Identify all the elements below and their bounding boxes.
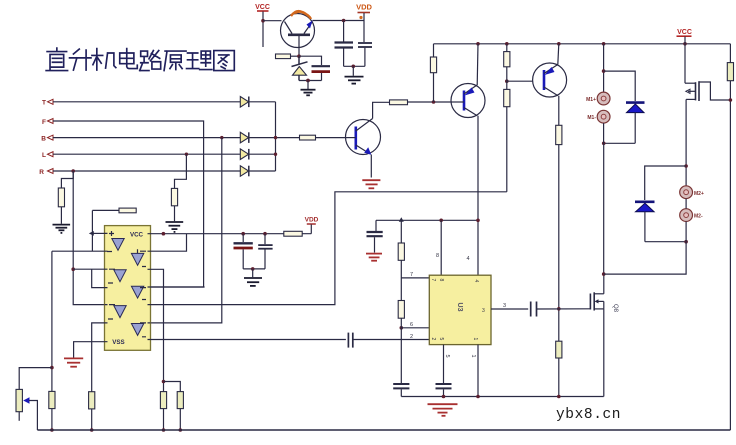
U3 inner pin labels	[430, 279, 485, 341]
wire Q6 gate route	[699, 82, 730, 100]
char 原	[164, 51, 186, 70]
capacitor C (output coupling)	[531, 302, 537, 317]
orange scribble on Q1	[291, 11, 311, 19]
svg-text:6: 6	[410, 322, 413, 328]
diode D6 (M2 flyback)	[635, 202, 655, 242]
ground (VDD caps)	[345, 77, 364, 84]
svg-text:2: 2	[430, 338, 436, 341]
capacitor C (pin5 bypass)	[436, 384, 452, 397]
resistor R (U1 feedback)	[119, 208, 136, 213]
node bus L	[274, 153, 277, 156]
wire zener bottom	[299, 80, 322, 82]
svg-text:3: 3	[503, 303, 506, 309]
transistor Q1 (top regulator)	[281, 14, 315, 57]
wire pin5-pin7 link	[92, 269, 105, 287]
node R pin junction	[71, 267, 75, 271]
wire VCC stub down	[262, 12, 264, 48]
capacitor C (electrolytic, red plate)	[234, 234, 253, 269]
ground U3 (red)	[428, 404, 458, 416]
wire pin8 drop	[440, 220, 442, 275]
char 电	[120, 49, 138, 69]
svg-text:8: 8	[438, 279, 444, 282]
svg-text:1: 1	[470, 355, 476, 358]
resistor R (Q3 base pullup)	[433, 44, 435, 57]
port T	[42, 99, 53, 106]
node B branch	[220, 136, 223, 139]
terminal M1+	[586, 92, 610, 105]
node gate	[557, 307, 561, 311]
node zener top	[297, 54, 301, 58]
svg-text:3: 3	[482, 308, 485, 314]
svg-text:VCC: VCC	[130, 232, 144, 239]
wire L pulldown jog	[175, 154, 187, 188]
IC U1 hex inverter body	[105, 226, 151, 351]
wire U1 VCC to VDD	[151, 233, 312, 235]
wire T row	[53, 101, 240, 103]
terminal M2-	[680, 209, 703, 222]
node pin8	[439, 219, 443, 223]
ground VSS (red)	[64, 358, 83, 366]
ground (below zener)	[301, 90, 316, 96]
node pullup junction	[432, 100, 436, 104]
svg-text:F: F	[42, 119, 46, 126]
svg-text:7: 7	[430, 279, 436, 282]
wire zener-cap top	[299, 56, 322, 65]
svg-text:U3: U3	[456, 303, 463, 312]
power VDD (mid)	[305, 217, 319, 234]
wire VCC drop to Q6	[684, 37, 686, 84]
svg-text:T: T	[42, 100, 46, 107]
wire cap bottoms	[243, 268, 265, 270]
wire Q4 emitter up	[558, 44, 559, 65]
node cap ground	[251, 267, 255, 271]
node ground junction	[306, 79, 310, 83]
wire M2 column mid	[685, 199, 687, 209]
resistor R (Q2 base)	[300, 135, 316, 140]
resistor R (Q6 gate pullup)	[727, 63, 733, 81]
inverter U1B	[108, 269, 126, 283]
wire Q2 emitter down	[370, 155, 372, 178]
wire resistor pair link	[164, 382, 181, 392]
svg-text:4: 4	[467, 256, 470, 262]
terminal M2+	[680, 186, 704, 199]
resistor R (divider lower)	[504, 89, 510, 106]
power VDD (top)	[356, 3, 372, 43]
wire pin6	[400, 318, 402, 383]
resistor R (divider upper)	[506, 44, 508, 52]
wire Q3 collector down to U3	[477, 116, 479, 275]
wire M1 column between	[603, 123, 605, 143]
inverter U1A	[107, 231, 124, 252]
zener diode DZ	[292, 56, 308, 80]
wire to pot	[19, 368, 52, 390]
wire pin1 down	[477, 345, 479, 397]
port L	[42, 152, 53, 160]
wire to Q4 base	[507, 80, 533, 82]
wire U1 VSS pin	[74, 342, 105, 358]
resistor R (L pulldown)	[171, 188, 177, 205]
wire collector resistor to Q3 base	[408, 101, 452, 103]
wire to diode D5 top	[604, 71, 636, 101]
char 图	[214, 51, 234, 71]
ground (L pulldown)	[166, 222, 184, 232]
ground U3 cap (red)	[366, 254, 382, 261]
wire Q5 source down	[603, 309, 605, 397]
resistor R (R pulldown)	[58, 188, 64, 207]
svg-text:M2+: M2+	[694, 191, 704, 197]
resistor R (VDD feed)	[284, 231, 302, 236]
terminal M1-	[587, 110, 610, 123]
pin arrow	[89, 231, 94, 236]
node pin6	[400, 326, 404, 330]
wire U1 pin10 out (right) to Q3 net	[151, 192, 507, 305]
wire Ra-Rb	[400, 260, 402, 300]
wire U3 ground rail	[401, 396, 603, 398]
wire pin5 down	[443, 345, 445, 384]
svg-text:4: 4	[473, 280, 479, 283]
node M2 diode top	[684, 164, 688, 168]
node VCC-base junction	[261, 19, 265, 23]
wire U1 pin9 (left)	[92, 323, 105, 392]
resistor R (gate pulldown)	[556, 341, 562, 358]
resistor R (bottom 4)	[177, 392, 183, 409]
node rail 3	[162, 428, 166, 432]
svg-text:M2-: M2-	[694, 214, 703, 220]
node rail pin5	[442, 395, 446, 399]
capacitor C (VDD filter 2)	[358, 43, 372, 66]
wire B row	[53, 137, 240, 139]
svg-text:M1+: M1+	[586, 97, 596, 103]
inverter U1E	[131, 286, 146, 299]
node VCC wire left	[162, 232, 166, 236]
node Q4 emitter rail	[557, 42, 561, 46]
pin marks U1 left edge	[105, 233, 108, 341]
char 直	[46, 48, 67, 70]
node R chain top (arrow)	[399, 217, 404, 222]
node R branch	[71, 169, 75, 173]
wire Q4 collector down	[558, 96, 560, 126]
wire to rail	[91, 409, 93, 430]
wire M1 column top	[603, 44, 605, 92]
wire pin7	[401, 277, 429, 279]
node M1 diode top	[602, 69, 606, 73]
wire B branch to U1	[151, 138, 222, 323]
wire to ground	[60, 207, 62, 224]
resistor R (bottom 2)	[89, 392, 95, 409]
svg-text:VDD: VDD	[356, 3, 372, 12]
node cap ground junction	[352, 65, 356, 69]
wire M2 column down	[604, 222, 686, 275]
svg-text:Q8: Q8	[612, 304, 618, 313]
wire U1 pin4 out (right)	[151, 234, 187, 252]
wire U1 pin12 (right, long to cap)	[151, 339, 346, 341]
diode D3 (L)	[240, 149, 249, 160]
node decoupling cap 2	[263, 232, 267, 236]
diode D4 (R)	[240, 166, 249, 177]
node L branch	[185, 153, 188, 156]
wire divider down	[506, 107, 508, 192]
wire Q5 drain up	[603, 274, 605, 294]
power VCC (top left)	[255, 4, 270, 11]
wire to rail	[51, 409, 53, 430]
svg-text:L: L	[42, 152, 46, 159]
wire R diode out	[249, 170, 276, 172]
resistor R (bottom 3)	[160, 392, 166, 409]
wire U1 pin8 out (right, from F)	[151, 286, 205, 288]
ground (VDD decoupling)	[244, 278, 262, 286]
pin marks U1 right edge	[148, 234, 151, 340]
transistor Q5 (N-MOSFET)	[590, 292, 603, 310]
inverter U1D	[131, 249, 146, 266]
node Q4 base	[505, 79, 509, 83]
wire to diode D6 top	[645, 166, 686, 200]
wire cap to gate	[537, 308, 591, 310]
node M1 diode bottom	[602, 142, 606, 146]
char 路	[140, 51, 161, 71]
node Q3 emitter rail	[476, 42, 480, 46]
node cap junction	[342, 19, 346, 23]
svg-text:B: B	[41, 136, 46, 143]
port F	[42, 119, 53, 126]
node VCC rail	[683, 42, 687, 46]
wire U3 supply node	[376, 219, 478, 221]
wire U1 pin3 (left)	[52, 250, 105, 252]
resistor R (Q1 base)	[291, 55, 300, 57]
node rail 4	[179, 428, 183, 432]
wire U1 pin6 out (right) down	[151, 269, 164, 391]
wire cap bottoms	[344, 65, 365, 67]
svg-text:M1-: M1-	[587, 115, 596, 121]
power VCC (right)	[677, 29, 692, 36]
wire right edge column	[729, 44, 731, 63]
node bottom resistor pair	[162, 380, 166, 384]
svg-text:VDD: VDD	[305, 217, 319, 224]
resistor R (Q4 collector)	[556, 125, 562, 144]
transistor Q6 (P-MOSFET)	[685, 81, 699, 101]
inverter U1C	[108, 305, 126, 319]
IC U3 body	[429, 275, 491, 344]
port R	[39, 169, 53, 177]
wire Q1 emitter to VDD rail	[313, 20, 364, 22]
title 直升机电路原理图 (vector strokes)	[46, 48, 234, 70]
node M2 diode bottom	[684, 240, 688, 244]
node rail 2	[90, 428, 94, 432]
node rail R-pair	[505, 42, 509, 46]
node rail gate resistor	[557, 395, 561, 399]
wire B diode out to base resistor	[249, 137, 300, 139]
wire pin3 out	[491, 308, 528, 310]
resistor R (Q2 collector)	[390, 100, 408, 105]
svg-text:VSS: VSS	[112, 339, 124, 346]
capacitor C (U3 decoupling)	[367, 220, 383, 252]
wire diode bottom to M2 column	[645, 241, 686, 243]
capacitor C (VDD filter 1)	[335, 21, 354, 67]
wire base resistor to Q2	[316, 137, 346, 139]
inverter U1F	[131, 323, 146, 337]
resistor R (555 Ra)	[400, 220, 402, 243]
wire Q6 drain down	[685, 99, 687, 186]
wire gate resistor down	[558, 358, 560, 397]
transistor Q4 (PNP)	[533, 63, 567, 97]
char 机	[92, 49, 116, 70]
wire to ground	[307, 81, 309, 90]
char 升	[70, 49, 91, 70]
wire Q3 emitter up	[476, 44, 479, 85]
ground Q2 emitter (red)	[362, 180, 380, 188]
wire top rail (VDD bus)	[434, 43, 731, 45]
node rail pin1	[476, 395, 480, 399]
node bus B	[274, 136, 277, 139]
svg-text:5: 5	[438, 338, 444, 341]
char 理	[187, 51, 212, 70]
wire feedback resistor branch	[91, 210, 93, 251]
diode D1 (T)	[240, 97, 249, 108]
node decoupling cap 1	[241, 232, 245, 236]
node pin4	[476, 219, 480, 223]
capacitor C (series coupling)	[348, 333, 352, 348]
wire pot column	[51, 251, 53, 391]
svg-text:7: 7	[410, 272, 413, 278]
node gate route	[729, 98, 733, 102]
diode D2 (B)	[240, 132, 249, 143]
wire to rail	[163, 409, 165, 430]
capacitor C (ceramic)	[258, 234, 272, 269]
node M1 rail	[602, 42, 606, 46]
capacitor C (555 timing)	[393, 384, 409, 397]
wire R row	[53, 170, 240, 172]
wire cap to U3 pin2	[353, 339, 430, 341]
wire T diode out	[249, 101, 276, 103]
svg-text:ybx8.cn: ybx8.cn	[556, 407, 621, 423]
node pot branch	[50, 366, 54, 370]
ground (R pulldown)	[53, 225, 71, 233]
wire diode bus	[275, 102, 277, 171]
svg-text:5: 5	[444, 355, 450, 358]
wire Q2 collector up	[373, 102, 390, 118]
svg-text:1: 1	[472, 338, 478, 341]
wire U1 pin1 (left, with arrow)	[92, 232, 104, 234]
resistor R (555 Rb)	[398, 301, 404, 319]
diode D5 (M1 flyback)	[626, 103, 645, 144]
wire R branch down to U1	[73, 171, 104, 305]
port B	[41, 135, 53, 143]
wire right edge down	[729, 81, 731, 430]
wire diode bottom to M1 column	[604, 142, 636, 144]
wire VCC to Q1	[263, 20, 282, 22]
node M2 return	[602, 272, 606, 276]
transistor Q3 (PNP)	[451, 84, 485, 118]
svg-text:R: R	[39, 169, 44, 176]
wire to rail	[179, 409, 181, 430]
wire U1 pin5 (left)	[73, 268, 104, 270]
wire gate node column	[558, 145, 560, 342]
wire L diode out	[249, 153, 276, 155]
wire feedback resistor row	[92, 209, 119, 211]
svg-text:VCC: VCC	[677, 29, 692, 36]
svg-text:2: 2	[410, 334, 413, 340]
wire to ground	[174, 206, 176, 221]
wire bottom rail	[37, 429, 730, 431]
svg-text:VCC: VCC	[255, 4, 270, 11]
potentiometer RP	[16, 389, 37, 430]
transistor Q2 (NPN driver)	[346, 119, 381, 155]
wire M1 column down to Q5	[603, 143, 605, 274]
resistor R (bottom 1)	[49, 391, 55, 408]
wire L row	[53, 153, 240, 155]
capacitor C (electrolytic, red plate)	[312, 66, 331, 80]
wire R pulldown jog	[61, 171, 73, 188]
svg-text:8: 8	[436, 253, 439, 259]
wire F row	[53, 121, 204, 287]
node rail 1	[50, 428, 54, 432]
